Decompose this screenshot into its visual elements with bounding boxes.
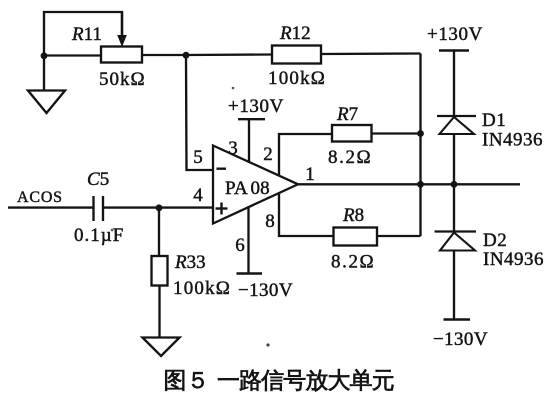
wire: op-amp pin 6 down to -130V bar — [247, 207, 249, 274]
svg-text:R33: R33 — [174, 252, 206, 273]
wire: node B down to R33 — [158, 208, 160, 256]
svg-text:PA08: PA08 — [225, 178, 270, 199]
svg-text:3: 3 — [228, 138, 238, 159]
svg-text:ACOS: ACOS — [17, 189, 63, 206]
supply -130V rail bar (clamp) — [444, 318, 471, 320]
supply +130V rail bar (op-amp) — [238, 118, 265, 120]
wire: +130V bar down to D1 cathode — [453, 51, 455, 117]
wire: R7 right terminal to feedback rail — [372, 132, 421, 134]
node A junction dot (R11/R12/pin5 net) — [183, 52, 190, 59]
caption: 图 5 一路信号放大单元 — [165, 369, 393, 391]
wire: wiper feedback loop from left node up and over to R11 wiper — [44, 12, 122, 57]
svg-text:2: 2 — [263, 144, 273, 165]
resistor R12 — [272, 46, 321, 64]
diode D2 (cathode up) — [435, 232, 477, 251]
svg-text:+130V: +130V — [228, 96, 284, 117]
svg-text:50kΩ: 50kΩ — [99, 69, 146, 90]
svg-text:R12: R12 — [279, 23, 311, 44]
wire: output line from op-amp pin 1 to the right edge — [298, 183, 520, 185]
wire: input lead to C5 — [8, 206, 93, 208]
svg-text:100kΩ: 100kΩ — [268, 68, 326, 89]
svg-text:+130V: +130V — [427, 24, 483, 45]
speck — [232, 87, 235, 90]
svg-text:8.2Ω: 8.2Ω — [331, 252, 375, 273]
wire: node A down and right to op-amp pin 5 — [186, 55, 213, 170]
svg-text:D2: D2 — [483, 230, 507, 251]
svg-text:R11: R11 — [71, 24, 102, 45]
svg-text:IN4936: IN4936 — [483, 249, 544, 270]
wire: R11 right terminal to node A — [142, 54, 186, 56]
wire: C5 to node B — [103, 206, 159, 208]
wire: D1 anode down to output node — [453, 134, 455, 184]
svg-text:0.1µF: 0.1µF — [74, 225, 124, 246]
svg-text:6: 6 — [235, 235, 245, 256]
svg-text:−130V: −130V — [433, 329, 488, 350]
svg-text:R8: R8 — [342, 205, 364, 226]
wire: op-amp pin 8 down and right to R8 — [279, 194, 334, 237]
node: junction dot feedback rail / R7 — [417, 130, 424, 137]
supply -130V rail bar (op-amp) — [237, 272, 263, 274]
wire: +130V bar down to op-amp pin 3 — [248, 119, 250, 163]
node: junction dot at left of R11 — [41, 52, 48, 59]
wire: R8 right terminal to feedback rail bottom — [377, 235, 421, 237]
wire: node B to op-amp pin 4 — [159, 206, 213, 208]
resistor R8 — [334, 228, 378, 246]
supply +130V rail bar (clamp) — [439, 49, 469, 51]
node B junction dot (C5/R33/pin4) — [156, 204, 163, 211]
resistor R7 — [332, 125, 372, 142]
svg-text:R7: R7 — [336, 104, 358, 125]
wire: D2 anode down to -130V bar — [453, 251, 455, 320]
op-amp U1 PA08 body — [213, 146, 298, 224]
speck — [266, 343, 269, 346]
wire: node A to R12 left terminal — [186, 53, 272, 56]
svg-text:IN4936: IN4936 — [482, 130, 543, 151]
svg-text:5: 5 — [193, 147, 203, 168]
svg-text:8.2Ω: 8.2Ω — [328, 147, 372, 168]
diode D1 (cathode up) — [437, 116, 476, 134]
wire: feedback rail vertical from R12 corner down to R8 — [419, 54, 421, 237]
svg-text:1: 1 — [305, 164, 315, 185]
svg-text:100kΩ: 100kΩ — [173, 278, 231, 299]
wire: left node to R11 left terminal — [44, 54, 101, 56]
ground symbol (top-left) — [28, 91, 65, 114]
ground symbol (below R33) — [143, 338, 180, 357]
svg-text:C5: C5 — [87, 169, 109, 190]
wire: R33 down to ground — [158, 286, 160, 339]
node: junction dot output / diode rail — [451, 181, 458, 188]
wire: op-amp pin 2 up and right to R7 — [279, 134, 332, 176]
capacitor C5 — [94, 196, 104, 221]
svg-text:4: 4 — [193, 185, 203, 206]
node: junction dot feedback rail / output line — [417, 181, 424, 188]
wire: output node down to D2 cathode — [453, 184, 455, 231]
wire: left node down to ground — [43, 55, 45, 91]
potentiometer R11 wiper arrow — [117, 12, 127, 47]
speck — [111, 229, 114, 232]
svg-text:−130V: −130V — [238, 280, 293, 301]
svg-text:8: 8 — [265, 211, 275, 232]
wire: R12 right terminal to feedback rail corner — [321, 52, 421, 55]
op-amp inverting input minus sign — [217, 167, 227, 169]
potentiometer R11 body — [101, 47, 142, 63]
resistor R33 — [152, 256, 168, 286]
op-amp non-inverting input plus sign — [216, 203, 228, 215]
svg-text:D1: D1 — [482, 110, 506, 131]
